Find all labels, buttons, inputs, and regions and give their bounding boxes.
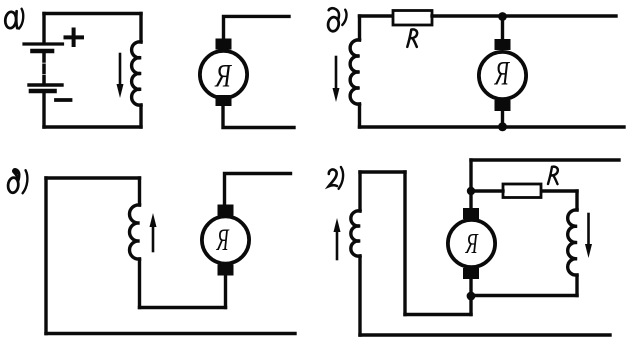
brush bottom g [463, 268, 479, 279]
label a) [4, 9, 23, 29]
current arrow up (g) [334, 218, 341, 259]
coil L1 field winding a [132, 42, 141, 105]
wire armature bottom lead a [223, 106, 294, 128]
wire top rail left b [360, 14, 394, 17]
brush bottom v [218, 265, 234, 276]
wire top link g [360, 170, 405, 173]
wire bottom link v [140, 306, 226, 309]
current arrow down (g right) [585, 214, 592, 258]
wire top of loop a [44, 12, 141, 15]
wire armature top lead g [469, 191, 472, 208]
wire bottom rail v [46, 332, 295, 335]
motor armature U4 (Я) circle g [448, 220, 495, 267]
wire top rail g [471, 158, 619, 161]
wire right lower a [139, 105, 142, 127]
current arrow up (v) [150, 213, 157, 251]
motor armature U3 (Я) circle v [202, 216, 249, 263]
brush top g [463, 208, 479, 219]
plus sign [66, 30, 83, 46]
wire left bottom a [42, 91, 45, 127]
wire right upper a [139, 14, 142, 43]
wire armature bottom lead g [469, 279, 472, 296]
coil L2 field winding b [350, 40, 359, 104]
junction dot A g [467, 187, 475, 195]
wire left top a (battery feed) [42, 14, 45, 43]
brush top v [218, 205, 234, 216]
label b) [327, 8, 346, 32]
label Я v [216, 230, 229, 250]
wire staircase vertical g [403, 172, 406, 315]
wire resistor right lead g [541, 189, 577, 192]
wire bottom rail g [360, 333, 610, 336]
brush top a [216, 39, 232, 50]
wire coil bottom lead v [138, 259, 141, 308]
coil L4 field winding g [351, 211, 360, 256]
label Я b [494, 62, 510, 85]
coil L5 armature-shunt winding g [568, 210, 577, 275]
junction dot bottom b [498, 122, 507, 131]
wire staircase horizontal g [405, 313, 471, 316]
wire left vertical bottom g [358, 256, 361, 335]
wire armature top lead b [501, 17, 504, 41]
wire up to junction B g [469, 296, 472, 315]
wire bottom of loop a [44, 125, 141, 128]
label v) [7, 169, 27, 193]
wire armature top lead a [224, 16, 290, 38]
coil L3 field winding v [129, 205, 139, 259]
current arrow down (b) [333, 57, 340, 102]
wire bottom rail b [360, 125, 625, 128]
brush bottom a [216, 95, 232, 106]
wire right coil top lead g [575, 191, 578, 210]
wire left top b [358, 16, 361, 40]
battery GB1 cell2 short plate [31, 89, 55, 94]
battery GB1 cell1 short plate [33, 49, 53, 54]
resistor R g [503, 184, 541, 198]
resistor R b [393, 11, 432, 26]
wire armature bottom lead b [501, 111, 504, 127]
wire left vertical v [44, 178, 47, 334]
brush bottom b [495, 100, 511, 111]
wire left vertical top g [358, 172, 361, 211]
junction dot B g [467, 292, 476, 301]
minus sign [56, 98, 71, 102]
motor armature U2 (Я) circle b [479, 52, 526, 99]
motor armature U1 (Я) circle a [200, 51, 247, 98]
label Я g [465, 234, 479, 253]
wire armature bottom lead v [224, 277, 227, 308]
wire top rail right b [432, 14, 616, 17]
battery GB1 cell2 long plate [29, 83, 62, 86]
wire armature top lead v [225, 174, 291, 205]
label Я a [214, 65, 231, 87]
wire left bottom b [358, 104, 361, 127]
current arrow down (a) [117, 54, 124, 98]
brush top b [495, 39, 511, 50]
label R b [407, 29, 417, 46]
battery GB1 inter-cell dashed wire [42, 54, 46, 83]
junction dot top b [498, 12, 507, 21]
wire top v [46, 176, 140, 179]
wire right coil bottom lead g [575, 275, 578, 296]
wire junction A up g [469, 160, 472, 191]
wire junction B to coil bottom g [471, 294, 577, 297]
label R g [548, 167, 558, 184]
battery GB1 cell1 long plate [24, 42, 63, 45]
wire coil top lead v [138, 178, 141, 205]
wire resistor left lead g [471, 189, 503, 192]
label g) [329, 167, 344, 189]
